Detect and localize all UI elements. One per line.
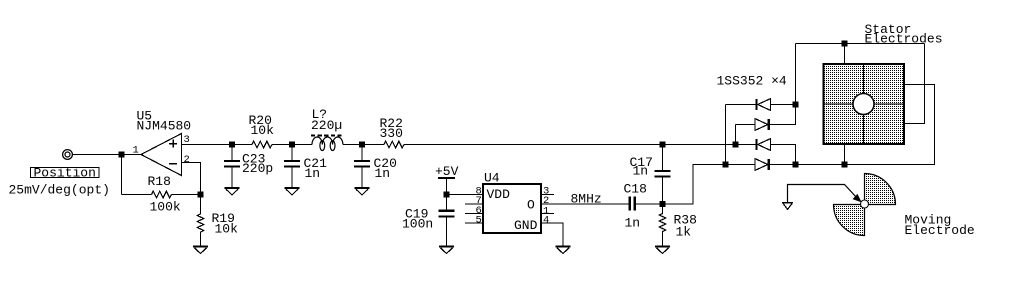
pin 1 stub [541, 213, 554, 215]
wire diode D1 left drop (crossover) [725, 105, 727, 165]
pin 6 stub [465, 213, 483, 215]
svg-text:4: 4 [543, 215, 549, 227]
svg-text:220p: 220p [242, 161, 273, 176]
op-amp U5 [141, 134, 182, 176]
rotor hub [861, 200, 869, 208]
wire op-amp pin2 to feedback node [182, 163, 201, 195]
ground C19 [439, 247, 454, 254]
capacitor C21 [284, 161, 300, 167]
wire C18 to node [636, 203, 663, 205]
svg-text:330: 330 [380, 126, 403, 141]
pin 3 stub [541, 194, 554, 196]
svg-text:VDD: VDD [487, 187, 511, 202]
pin 5 stub [465, 222, 483, 224]
svg-text:2: 2 [184, 154, 190, 166]
node +5V junction [444, 192, 448, 196]
svg-text:5: 5 [476, 214, 482, 226]
svg-text:1n: 1n [625, 215, 641, 230]
svg-text:U4: U4 [484, 171, 500, 186]
rotor NE quadrant [865, 174, 896, 205]
wire L to R22 [343, 144, 384, 146]
wire 8MHz pin2 to C18 [541, 203, 629, 205]
capacitor C18 [630, 197, 635, 211]
svg-text:1n: 1n [633, 164, 649, 179]
Position label box [31, 168, 100, 178]
svg-text:NJM4580: NJM4580 [137, 119, 192, 134]
wire stator top [796, 43, 925, 45]
inductor L? core dashes [311, 135, 342, 137]
inductor L? [312, 137, 343, 151]
wire D2 right [770, 105, 796, 125]
svg-text:1SS352 ×4: 1SS352 ×4 [717, 74, 787, 89]
capacitor C23 [224, 161, 240, 167]
svg-text:Electrodes: Electrodes [865, 32, 943, 47]
node main to D2 [733, 142, 737, 146]
ground U4 pin4 [556, 247, 571, 254]
wire feedback vertical [121, 155, 123, 195]
wire D4 left [726, 164, 756, 166]
wire C19 bottom [446, 217, 448, 245]
svg-text:Electrode: Electrode [905, 223, 975, 238]
wire moving electrode arrow [788, 185, 858, 203]
svg-text:R18: R18 [148, 174, 171, 189]
wire R18 left [122, 194, 152, 196]
node C17 top [660, 142, 664, 146]
svg-text:1: 1 [133, 144, 139, 156]
wire R19 top [200, 195, 202, 215]
ground R19 [193, 247, 208, 254]
rotor SW quadrant [834, 205, 865, 236]
ground C21 [285, 188, 300, 195]
IC U4 box [483, 184, 541, 233]
svg-text:220µ: 220µ [311, 118, 342, 133]
wire output to op-amp [73, 154, 141, 156]
node C23 [230, 142, 234, 146]
stator electrode plate [824, 64, 905, 144]
capacitor C19 [439, 211, 455, 217]
wire D1 left [726, 104, 757, 106]
wire C17 bottom [662, 178, 664, 204]
ground moving electrode [782, 202, 793, 204]
wire stator bottom [796, 85, 935, 165]
wire stator top stub [844, 44, 846, 65]
terminal Position output [63, 150, 73, 160]
resistor R20 [252, 141, 272, 148]
svg-text:1k: 1k [676, 225, 692, 240]
capacitor C20 [354, 161, 370, 167]
svg-text:100k: 100k [150, 200, 181, 215]
resistor R22 [384, 141, 404, 148]
wire D2 left drop [735, 125, 737, 145]
wire stator right vertical [904, 44, 925, 124]
svg-text:C18: C18 [624, 181, 647, 196]
wire main pin3 to R20 [182, 144, 253, 146]
svg-text:25mV/deg(opt): 25mV/deg(opt) [9, 182, 110, 197]
svg-text:100n: 100n [402, 216, 433, 231]
node feedback junction [198, 192, 202, 196]
node C20 [360, 142, 364, 146]
svg-text:10k: 10k [251, 123, 275, 138]
resistor R18 [152, 191, 172, 198]
wire +5V down [446, 179, 448, 210]
node output junction [119, 152, 123, 156]
svg-text:Position: Position [34, 166, 96, 181]
svg-text:O: O [527, 197, 535, 212]
wire stator bottom stub [844, 144, 846, 165]
wire C23 top [231, 145, 233, 161]
diode D4 [755, 159, 768, 171]
wire C20 bottom [361, 168, 363, 187]
wire C21 top [291, 145, 293, 161]
svg-text:10k: 10k [215, 221, 239, 236]
wire D2 left [736, 124, 756, 126]
node diode bottom-right [793, 162, 797, 166]
ground R38 [655, 247, 670, 254]
wire R18 right [172, 194, 201, 196]
wire C23 bottom [231, 168, 233, 187]
node C21 [290, 142, 294, 146]
capacitor C17 [655, 171, 671, 177]
wire node to diode bridge [663, 165, 726, 205]
wire C20 top [361, 145, 363, 161]
svg-text:3: 3 [184, 134, 190, 146]
pin 4 wire to ground [541, 223, 563, 246]
svg-text:1n: 1n [305, 166, 321, 181]
ground C23 [225, 188, 240, 195]
pin 7 stub [465, 203, 483, 205]
wire D3 right [771, 145, 796, 165]
node 8MHz injection [660, 202, 664, 206]
wire R19 bottom [200, 232, 202, 246]
diode D3 [755, 139, 757, 150]
svg-text:GND: GND [514, 218, 538, 233]
supply +5V bar [438, 177, 455, 179]
svg-text:8MHz: 8MHz [571, 192, 602, 207]
node diode bottom-left [723, 162, 727, 166]
svg-text:+5V: +5V [435, 164, 459, 179]
wire D4 right [770, 164, 796, 166]
resistor R38 [659, 204, 666, 246]
ground C20 [355, 188, 370, 195]
wire C17 top [662, 145, 664, 171]
resistor R19 [197, 214, 204, 232]
node stator bottom stub [842, 162, 846, 166]
wire R20 to L [272, 144, 312, 146]
wire stator loop left vertical [795, 44, 797, 105]
wire D1 right [771, 104, 796, 106]
node diode top-right [793, 102, 797, 106]
wire R22 to C17 node [404, 144, 757, 146]
node stator top stub [842, 41, 846, 45]
wire +5V to U4 pin8 [447, 194, 484, 196]
diode D2 [755, 119, 768, 131]
wire C21 bottom [291, 168, 293, 187]
arrowhead [854, 195, 861, 201]
diode D1 [755, 99, 757, 110]
svg-text:1n: 1n [375, 166, 391, 181]
